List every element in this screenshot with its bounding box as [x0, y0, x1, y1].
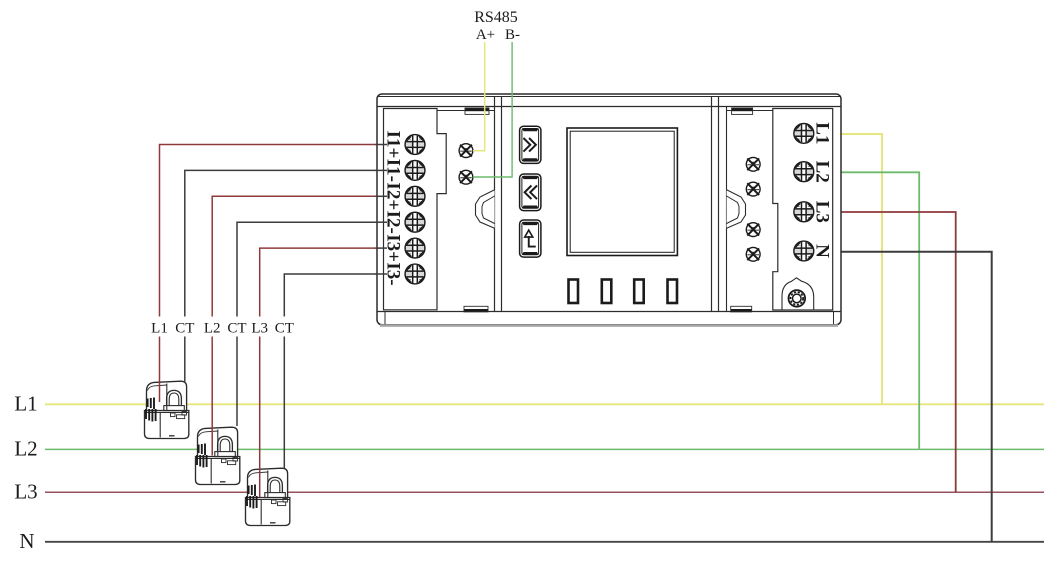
terminal screw I3-	[405, 264, 425, 284]
right recess left edge	[726, 107, 728, 312]
phase line L3	[45, 491, 1044, 493]
terminal screw I3+	[405, 238, 425, 258]
terminal stub I1-	[376, 169, 388, 171]
section divider left	[494, 97, 496, 312]
terminal stub I1+	[376, 144, 388, 146]
wire L1 wire of CT1 (terminal I1+ to CT)	[160, 145, 378, 317]
svg-text:L3: L3	[14, 480, 37, 504]
left recess lines	[437, 110, 495, 112]
right recess lines	[727, 110, 773, 112]
left top tab	[465, 108, 489, 111]
vent slot 4	[668, 280, 678, 304]
terminal screw I2-	[405, 212, 425, 232]
right terminal cover	[773, 109, 833, 311]
right bottom tab	[731, 309, 752, 312]
wire CT wire of CT2 (terminal I2- to CT)	[237, 222, 377, 316]
button fast-forward	[520, 126, 541, 163]
wire RS485 B-	[473, 42, 512, 177]
vent slot 2	[602, 280, 612, 304]
band seam left	[384, 312, 386, 324]
svg-text:I3-: I3-	[383, 262, 404, 285]
terminal screw N	[794, 241, 814, 261]
wire segment to CT1	[184, 337, 186, 382]
svg-text:L1: L1	[14, 392, 37, 416]
DIN clip right	[727, 190, 746, 229]
wire L3 phase to meter	[841, 212, 956, 492]
bottom shadow	[380, 324, 838, 327]
right top tab	[732, 108, 753, 111]
svg-text:L2: L2	[204, 321, 221, 337]
wire segment to CT2	[236, 337, 238, 427]
terminal stub I3+	[376, 247, 388, 249]
svg-text:CT: CT	[227, 321, 246, 337]
terminal screw I2+	[405, 187, 425, 207]
svg-text:I2+: I2+	[383, 182, 404, 210]
terminal screw L1	[794, 124, 814, 144]
band seam right	[833, 312, 835, 324]
current transformer CT2 on L2	[196, 427, 240, 484]
aux screw 1	[746, 157, 760, 171]
meter body outline	[377, 94, 841, 325]
terminal screw L3	[794, 202, 814, 222]
svg-text:CT: CT	[275, 321, 294, 337]
wire segment to CT3	[259, 337, 261, 498]
svg-text:N: N	[19, 529, 34, 553]
svg-text:L3: L3	[812, 201, 833, 223]
wire N to meter	[841, 252, 992, 542]
svg-text:I3+: I3+	[383, 234, 404, 262]
button enter	[520, 220, 541, 257]
wire CT wire of CT3 (terminal I3- to CT)	[284, 274, 377, 317]
current transformer CT1 on L1	[145, 381, 189, 438]
svg-text:L3: L3	[251, 321, 268, 337]
svg-text:I1+: I1+	[383, 131, 404, 159]
section divider right	[711, 97, 713, 312]
svg-text:L1: L1	[812, 122, 833, 144]
svg-text:RS485: RS485	[474, 9, 518, 26]
svg-text:I1-: I1-	[383, 159, 404, 182]
ground screw	[789, 290, 806, 307]
left terminal cover	[384, 109, 447, 310]
wire L2 phase to meter	[841, 172, 919, 449]
phase line N	[45, 541, 1044, 543]
terminal stub I2+	[376, 195, 388, 197]
vent slot 1	[569, 280, 579, 304]
wire L3 wire of CT3 (terminal I3+ to CT)	[260, 248, 377, 316]
meter bottom rail band	[377, 311, 841, 313]
aux screw 2	[746, 182, 760, 196]
wire segment to CT2	[211, 337, 213, 456]
svg-text:L1: L1	[151, 321, 168, 337]
phase line L2	[45, 448, 1044, 450]
terminal screw I1+	[405, 135, 425, 155]
terminal screw L2	[794, 162, 814, 182]
svg-text:L2: L2	[14, 437, 37, 461]
wire segment to CT3	[283, 337, 285, 469]
LCD display	[567, 128, 677, 256]
wire segment to CT1	[159, 337, 161, 403]
wire CT wire of CT1 (terminal I1- to CT)	[185, 170, 377, 316]
phase line L1	[45, 403, 1044, 405]
svg-text:A+: A+	[476, 27, 495, 43]
current transformer CT3 on L3	[246, 468, 290, 525]
DIN clip left	[476, 190, 495, 229]
svg-text:N: N	[812, 244, 833, 258]
RS485 screw A+	[459, 144, 473, 158]
terminal screw I1-	[405, 161, 425, 181]
svg-text:B-: B-	[505, 27, 520, 43]
aux screw 4	[746, 247, 760, 261]
wire L1 phase to meter	[841, 134, 882, 404]
svg-text:I2-: I2-	[383, 211, 404, 234]
RS485 screw B-	[459, 170, 473, 184]
svg-text:CT: CT	[175, 321, 194, 337]
vent slot 3	[634, 280, 644, 304]
wire L2 wire of CT2 (terminal I2+ to CT)	[212, 196, 377, 316]
meter top rail band	[378, 96, 840, 98]
terminal stub I3-	[376, 273, 388, 275]
left bottom tab	[464, 309, 488, 312]
wire RS485 A+	[473, 42, 485, 151]
button back	[520, 174, 541, 211]
ground screw pad	[782, 278, 814, 310]
terminal stub I2-	[376, 221, 388, 223]
svg-text:L2: L2	[812, 161, 833, 183]
aux screw 3	[746, 223, 760, 237]
